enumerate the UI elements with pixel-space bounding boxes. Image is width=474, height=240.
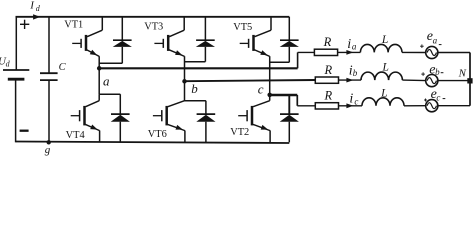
wire diode-emitter rejoin leg 1 (99, 62, 122, 64)
freewheel diode of VT2 (280, 95, 299, 142)
svg-text:I: I (29, 0, 35, 12)
wire capacitor lower lead (48, 80, 50, 142)
wire phase a trunk (99, 52, 314, 68)
svg-text:VT4: VT4 (66, 130, 86, 141)
wire L to EMF phase b (402, 79, 425, 82)
wire capacitor upper lead (48, 17, 50, 73)
label ec (431, 87, 441, 102)
svg-text:L: L (382, 61, 389, 73)
svg-text:c: c (258, 82, 264, 97)
wire R to L phase a (338, 51, 361, 53)
current arrow Id on top rail (33, 14, 40, 19)
label ib (349, 63, 358, 78)
label eb (429, 62, 440, 77)
node b junction dot (182, 79, 187, 84)
label Id (29, 0, 41, 13)
node g junction dot (47, 140, 51, 144)
svg-text:b: b (191, 81, 198, 96)
wire L to EMF phase a (402, 51, 426, 53)
svg-text:R: R (323, 35, 332, 49)
wire phase b trunk (185, 80, 316, 81)
svg-text:c: c (436, 92, 440, 102)
svg-text:b: b (435, 67, 440, 77)
EMF source eb (426, 75, 438, 87)
svg-text:a: a (103, 73, 110, 88)
wire R to L phase b (339, 79, 362, 81)
EMF source ea (426, 46, 438, 58)
svg-text:VT2: VT2 (230, 127, 249, 138)
node c junction dot (267, 93, 272, 98)
resistor R phase b (315, 77, 338, 83)
IGBT VT4 (71, 94, 100, 142)
wire leg 1 node to lower tap (98, 68, 100, 94)
svg-text:b: b (353, 68, 358, 78)
freewheel diode of VT6 (196, 101, 215, 143)
freewheel diode of VT4 (111, 94, 130, 142)
wire lower diode tap leg 1 (99, 93, 120, 95)
svg-text:d: d (6, 59, 11, 68)
wire diode-emitter rejoin leg 2 (185, 61, 206, 63)
inductor L phase c (362, 98, 404, 106)
label Ud (0, 55, 11, 68)
wire neutral bus (469, 53, 471, 106)
label - of ec (443, 98, 446, 100)
IGBT VT2 (238, 95, 270, 142)
freewheel diode of VT3 (196, 17, 215, 62)
label - of eb (441, 72, 444, 74)
battery Ud positive plate (3, 69, 29, 71)
label + of eb (421, 72, 425, 76)
svg-text:R: R (324, 63, 333, 77)
svg-text:VT5: VT5 (233, 22, 252, 33)
svg-text:L: L (381, 34, 388, 46)
svg-text:VT6: VT6 (148, 129, 167, 140)
svg-text:VT1: VT1 (64, 19, 83, 30)
label - (DC bus negative) (20, 130, 29, 132)
current arrow ic (346, 103, 353, 108)
battery Ud negative plate (8, 78, 25, 81)
label + of ea (420, 44, 424, 48)
wire EMF to N phase c (438, 105, 470, 107)
wire lower diode tap leg 2 (185, 100, 206, 102)
inductor L phase a (360, 44, 402, 52)
IGBT VT3 (154, 17, 184, 82)
svg-text:i: i (349, 91, 353, 106)
label + of ec (424, 99, 427, 102)
svg-text:N: N (458, 67, 467, 79)
svg-text:c: c (354, 97, 358, 107)
svg-text:d: d (36, 4, 41, 13)
node N terminal square (467, 78, 472, 83)
svg-text:C: C (59, 62, 67, 73)
svg-text:a: a (433, 35, 438, 45)
EMF source ec (426, 100, 438, 112)
label - of ea (439, 44, 442, 46)
wire diode-emitter rejoin leg 3 (270, 61, 290, 63)
resistor R phase a (314, 49, 337, 55)
svg-text:g: g (45, 144, 51, 156)
label + (DC bus positive) (20, 20, 29, 29)
capacitor C plate upper (40, 72, 58, 74)
current arrow ia (346, 50, 353, 55)
inductor L phase b (361, 72, 402, 80)
freewheel diode of VT1 (113, 17, 132, 64)
IGBT VT6 (153, 101, 185, 143)
svg-text:R: R (324, 89, 333, 103)
label ea (427, 29, 438, 45)
node a junction dot (97, 66, 102, 71)
svg-text:VT3: VT3 (144, 22, 163, 33)
capacitor C plate lower (40, 79, 58, 81)
wire left DC lead upper (15, 17, 17, 70)
wire R to L phase c (339, 105, 363, 107)
wire leg 2 node to lower tap (184, 81, 186, 100)
svg-text:a: a (352, 42, 357, 52)
wire top DC rail (16, 16, 290, 18)
current arrow ib (346, 78, 353, 83)
wire phase c trunk (270, 95, 316, 106)
wire EMF to N phase b (438, 80, 470, 82)
label ic (349, 91, 358, 106)
label ia (347, 37, 357, 52)
resistor R phase c (315, 103, 338, 109)
wire left DC lead lower (15, 79, 17, 142)
wire bottom DC rail (16, 142, 290, 144)
freewheel diode of VT5 (280, 17, 299, 63)
svg-text:i: i (347, 37, 351, 52)
wire L to EMF phase c (404, 105, 426, 107)
wire EMF to N phase a (438, 52, 470, 54)
IGBT VT5 (240, 17, 271, 95)
IGBT VT1 (72, 17, 102, 69)
svg-text:L: L (380, 87, 387, 99)
